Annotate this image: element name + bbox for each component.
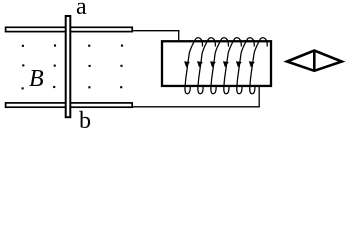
svg-text:a: a [76,0,87,20]
compass needle [287,51,342,71]
wire top vertical [178,30,180,41]
coil turn 2 [197,38,215,94]
coil turn 6 [249,38,267,94]
svg-text:b: b [79,108,91,134]
solenoid core box [162,41,271,86]
coil turn 5 [236,38,254,94]
slider bar ab [66,16,71,117]
field dot row3 [22,86,123,90]
bottom rail [6,103,133,107]
coil turn 1 [184,38,202,94]
wire bottom vertical [258,86,260,107]
top rail [6,27,133,31]
field dot row1 [22,44,123,46]
wire bottom horizontal [133,106,260,108]
coil turn 4 [223,38,241,94]
svg-text:B: B [29,66,44,92]
coil turn 3 [210,38,228,94]
wire top horizontal [133,30,180,32]
field dot row2 [22,64,122,67]
